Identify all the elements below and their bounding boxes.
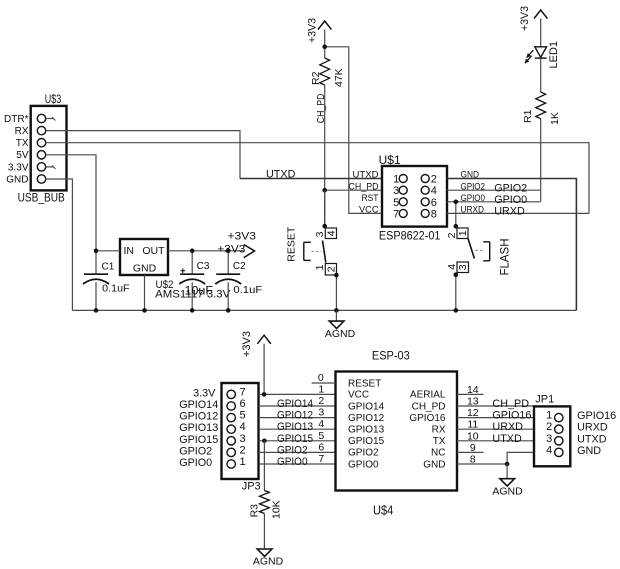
wire CH_PD to pin 3 bbox=[325, 189, 382, 191]
svg-text:C1: C1 bbox=[102, 262, 115, 273]
resistor R2 47K bbox=[310, 58, 345, 87]
svg-text:2: 2 bbox=[318, 395, 324, 407]
svg-text:5V: 5V bbox=[16, 150, 29, 161]
svg-text:UTXD: UTXD bbox=[353, 170, 380, 180]
wire CH_PD node down to RESET switch bbox=[324, 190, 326, 226]
node GND/JP1 junction bbox=[505, 462, 510, 467]
svg-text:CH_PD: CH_PD bbox=[349, 181, 379, 191]
svg-text:GPIO13: GPIO13 bbox=[348, 425, 385, 436]
node +3V3/VCC junction bbox=[262, 392, 267, 397]
svg-text:RESET: RESET bbox=[286, 226, 298, 262]
svg-text:4: 4 bbox=[446, 264, 458, 270]
svg-text:2: 2 bbox=[546, 421, 552, 433]
node CH_PD junction bbox=[322, 188, 327, 193]
svg-text:U$4: U$4 bbox=[373, 504, 393, 518]
ground AGND (JP1) bbox=[492, 464, 523, 498]
wire R1 to GPIO0 bbox=[540, 119, 542, 202]
power +3V3 (ESP-03 VCC) bbox=[241, 331, 271, 394]
connector U$3 USB_BUB bbox=[4, 94, 66, 204]
node 5V/C1/IN junction bbox=[94, 249, 99, 254]
svg-text:VCC: VCC bbox=[348, 390, 369, 401]
node FLASH top junction bbox=[454, 224, 459, 229]
svg-text:3: 3 bbox=[318, 407, 324, 419]
svg-text:GND: GND bbox=[6, 174, 28, 185]
svg-text:3: 3 bbox=[240, 433, 246, 445]
svg-text:AERIAL: AERIAL bbox=[410, 390, 446, 401]
svg-text:4: 4 bbox=[240, 421, 246, 433]
svg-text:GPIO12: GPIO12 bbox=[348, 413, 385, 424]
wire GPIO15 net bbox=[259, 433, 336, 445]
svg-text:0.1uF: 0.1uF bbox=[102, 283, 129, 295]
wire URXD net bbox=[447, 206, 589, 218]
resistor R3 10K bbox=[249, 491, 283, 520]
wire CH_PD net vertical bbox=[316, 85, 327, 226]
svg-text:USB_BUB: USB_BUB bbox=[18, 192, 65, 204]
svg-text:1: 1 bbox=[546, 410, 552, 422]
wire GPIO14 net bbox=[259, 398, 336, 410]
svg-text:GPIO0: GPIO0 bbox=[494, 194, 527, 206]
svg-text:ESP-03: ESP-03 bbox=[372, 349, 410, 363]
wire GPIO0 down to FLASH switch bbox=[455, 202, 457, 227]
svg-text:6: 6 bbox=[431, 197, 437, 209]
voltage regulator U$2 AMS1117 3.3V bbox=[96, 239, 244, 310]
svg-text:8: 8 bbox=[431, 208, 437, 220]
node +3V3/R2 junction bbox=[322, 45, 327, 50]
svg-text:4: 4 bbox=[325, 230, 337, 236]
wire JP1 pin4 to GND bbox=[507, 452, 534, 464]
wire ESP GND to AGND rail bbox=[447, 179, 576, 311]
svg-text:GPIO0: GPIO0 bbox=[277, 456, 308, 468]
svg-text:RX: RX bbox=[432, 425, 446, 436]
wire +3V3 branch to VCC pin bbox=[325, 47, 382, 214]
wire USB GND down bbox=[46, 179, 73, 310]
wire GPIO0 net bbox=[447, 194, 541, 206]
svg-text:RX: RX bbox=[15, 126, 29, 137]
svg-text:2: 2 bbox=[431, 174, 437, 186]
svg-text:+3V3: +3V3 bbox=[228, 231, 257, 243]
pin 14 AERIAL stub bbox=[457, 393, 484, 395]
svg-text:2: 2 bbox=[240, 444, 246, 456]
svg-text:GPIO16: GPIO16 bbox=[492, 410, 531, 422]
svg-text:TX: TX bbox=[16, 138, 29, 149]
pushbutton S2 FLASH bbox=[446, 228, 512, 276]
svg-text:GPIO2: GPIO2 bbox=[277, 444, 308, 456]
svg-text:GPIO12: GPIO12 bbox=[277, 410, 313, 422]
svg-text:CH_PD: CH_PD bbox=[492, 398, 529, 410]
node C1 bottom junction bbox=[94, 308, 99, 313]
svg-text:4: 4 bbox=[431, 185, 437, 197]
capacitor C2 0.1uF bbox=[215, 251, 262, 311]
svg-text:R1: R1 bbox=[522, 109, 534, 123]
wire R3 to AGND bbox=[263, 514, 265, 550]
IC U$1 ESP8622-01 bbox=[349, 155, 486, 242]
wire CH_PD net (bottom) bbox=[457, 398, 534, 410]
svg-text:3: 3 bbox=[457, 264, 469, 270]
svg-text:FLASH: FLASH bbox=[500, 239, 512, 276]
svg-text:GPIO16: GPIO16 bbox=[409, 413, 446, 424]
svg-text:C3: C3 bbox=[197, 261, 210, 272]
svg-text:6: 6 bbox=[318, 441, 324, 453]
svg-text:RESET: RESET bbox=[348, 378, 381, 389]
svg-text:AGND: AGND bbox=[492, 486, 523, 498]
svg-text:1K: 1K bbox=[549, 112, 561, 125]
wire UTXD net (bottom) bbox=[457, 433, 534, 445]
svg-text:4: 4 bbox=[318, 418, 324, 430]
node GPIO0/FLASH junction bbox=[454, 200, 459, 205]
svg-text:R3: R3 bbox=[249, 504, 261, 518]
wire GPIO13 net bbox=[259, 421, 336, 433]
svg-text:+3V3: +3V3 bbox=[217, 243, 245, 255]
svg-text:CH_PD: CH_PD bbox=[412, 401, 446, 412]
node C3 top junction bbox=[190, 249, 195, 254]
svg-text:NC: NC bbox=[431, 448, 445, 459]
svg-text:JP1: JP1 bbox=[535, 394, 554, 406]
svg-text:URXD: URXD bbox=[492, 421, 523, 433]
power +3V3 (regulator output) bbox=[217, 231, 256, 258]
wire VCC row bbox=[259, 393, 336, 395]
svg-text:7: 7 bbox=[393, 208, 399, 220]
svg-text:UTXD: UTXD bbox=[266, 168, 296, 180]
svg-text:GPIO0: GPIO0 bbox=[179, 457, 212, 469]
svg-text:GPIO2: GPIO2 bbox=[494, 182, 527, 194]
svg-text:GPIO2: GPIO2 bbox=[348, 448, 379, 459]
svg-text:3.3V: 3.3V bbox=[193, 387, 216, 399]
svg-text:2: 2 bbox=[446, 232, 458, 238]
svg-text:LED1: LED1 bbox=[548, 41, 560, 69]
LED LED1 bbox=[525, 41, 560, 92]
svg-text:TX: TX bbox=[433, 436, 446, 447]
svg-text:GPIO13: GPIO13 bbox=[277, 421, 313, 433]
svg-text:3: 3 bbox=[314, 231, 326, 237]
module U$4 ESP-03 bbox=[312, 349, 479, 518]
wire FLASH switch to AGND rail bbox=[455, 273, 457, 311]
svg-text:1: 1 bbox=[393, 174, 399, 186]
svg-text:U$3: U$3 bbox=[45, 94, 62, 106]
svg-text:GPIO12: GPIO12 bbox=[179, 411, 218, 423]
svg-text:3: 3 bbox=[393, 185, 399, 197]
svg-text:GPIO16: GPIO16 bbox=[577, 410, 616, 422]
svg-text:UTXD: UTXD bbox=[492, 433, 522, 445]
ground AGND (R3) bbox=[253, 549, 284, 568]
svg-text:JP3: JP3 bbox=[242, 481, 261, 493]
svg-text:7: 7 bbox=[240, 386, 246, 398]
svg-text:GND: GND bbox=[577, 445, 601, 457]
svg-text:C2: C2 bbox=[233, 261, 246, 272]
svg-text:3.3V: 3.3V bbox=[8, 162, 29, 173]
capacitor C1 0.1uF bbox=[83, 251, 130, 311]
pin 9 NC stub bbox=[457, 451, 484, 453]
svg-text:DTR*: DTR* bbox=[4, 114, 29, 125]
svg-text:R2: R2 bbox=[310, 71, 322, 85]
svg-text:AGND: AGND bbox=[253, 556, 284, 568]
node GPIO15/R3 junction bbox=[262, 439, 267, 444]
wire GPIO0 net bbox=[259, 456, 336, 468]
svg-text:ESP8622-01: ESP8622-01 bbox=[379, 228, 441, 242]
wire AGND rail bbox=[72, 309, 576, 311]
wire pin 8 GND bbox=[457, 463, 507, 465]
svg-text:+3V3: +3V3 bbox=[241, 331, 253, 357]
svg-text:6: 6 bbox=[240, 398, 246, 410]
svg-text:1: 1 bbox=[457, 230, 469, 236]
svg-text:U$1: U$1 bbox=[379, 155, 401, 167]
svg-text:GPIO13: GPIO13 bbox=[179, 422, 218, 434]
svg-text:1: 1 bbox=[314, 264, 326, 270]
wire GPIO12 net bbox=[259, 410, 336, 422]
resistor R1 1K bbox=[522, 92, 561, 125]
svg-text:GPIO14: GPIO14 bbox=[179, 399, 218, 411]
svg-text:GPIO14: GPIO14 bbox=[277, 398, 313, 410]
svg-text:5: 5 bbox=[318, 430, 324, 442]
svg-text:URXD: URXD bbox=[494, 206, 525, 218]
wire RX to UTXD bbox=[46, 131, 240, 179]
svg-text:7: 7 bbox=[318, 453, 324, 465]
connector JP3 bbox=[179, 383, 260, 493]
svg-text:4: 4 bbox=[546, 444, 552, 456]
svg-text:GPIO15: GPIO15 bbox=[348, 436, 385, 447]
svg-text:GPIO0: GPIO0 bbox=[348, 459, 379, 470]
svg-text:GPIO2: GPIO2 bbox=[179, 445, 212, 457]
capacitor C3 10uF (polarized) bbox=[179, 251, 213, 311]
svg-text:+3V3: +3V3 bbox=[519, 6, 531, 31]
wire 5V to regulator IN bbox=[46, 155, 96, 251]
svg-text:1: 1 bbox=[318, 383, 324, 395]
svg-text:UTXD: UTXD bbox=[577, 433, 607, 445]
wire TX to URXD bbox=[46, 143, 589, 214]
svg-text:+3V3: +3V3 bbox=[307, 18, 319, 43]
svg-text:IN: IN bbox=[124, 245, 135, 257]
svg-text:GPIO15: GPIO15 bbox=[179, 434, 218, 446]
svg-text:1: 1 bbox=[240, 456, 246, 468]
wire GPIO2 net bbox=[447, 182, 541, 194]
node FLASH rail junction bbox=[454, 308, 459, 313]
connector JP1 bbox=[534, 394, 616, 467]
svg-text:0: 0 bbox=[318, 372, 324, 384]
svg-text:GPIO14: GPIO14 bbox=[348, 401, 385, 412]
svg-text:10uF: 10uF bbox=[185, 286, 214, 298]
svg-text:0.1uF: 0.1uF bbox=[233, 284, 262, 296]
svg-text:CH_PD: CH_PD bbox=[316, 94, 327, 124]
pushbutton S1 RESET bbox=[286, 226, 338, 275]
node C3 bottom junction bbox=[190, 308, 195, 313]
power +3V3 above R2 bbox=[307, 18, 332, 58]
node C2 bottom junction bbox=[226, 308, 231, 313]
svg-text:47K: 47K bbox=[333, 68, 345, 87]
svg-text:VCC: VCC bbox=[359, 205, 379, 215]
svg-text:OUT: OUT bbox=[142, 245, 165, 257]
svg-text:GND: GND bbox=[423, 459, 445, 470]
svg-text:GND: GND bbox=[133, 263, 157, 275]
wire GPIO16 net bbox=[457, 410, 534, 422]
svg-text:GPIO15: GPIO15 bbox=[277, 433, 313, 445]
svg-text:RST: RST bbox=[362, 193, 379, 203]
node FLASH bottom junction bbox=[454, 272, 459, 277]
svg-text:5: 5 bbox=[240, 410, 246, 422]
ground AGND (rail) bbox=[325, 310, 356, 340]
node C2 top junction bbox=[226, 249, 231, 254]
wire RESET switch to AGND rail bbox=[335, 275, 337, 310]
svg-text:2: 2 bbox=[325, 266, 337, 272]
svg-text:AGND: AGND bbox=[325, 328, 356, 340]
wire UTXD net bbox=[240, 168, 382, 180]
wire URXD net (bottom) bbox=[457, 421, 534, 433]
node RESET top junction bbox=[322, 224, 327, 229]
svg-text:URXD: URXD bbox=[577, 422, 608, 434]
svg-text:3: 3 bbox=[546, 433, 552, 445]
svg-text:10K: 10K bbox=[271, 500, 283, 519]
wire GPIO15 down to R3 bbox=[263, 441, 265, 491]
svg-text:5: 5 bbox=[393, 197, 399, 209]
node regulator GND junction bbox=[142, 308, 147, 313]
power +3V3 above LED1 bbox=[519, 6, 547, 47]
wire GPIO2 net bbox=[259, 444, 336, 456]
node RESET rail junction bbox=[334, 308, 339, 313]
node RESET bottom junction bbox=[334, 273, 339, 278]
